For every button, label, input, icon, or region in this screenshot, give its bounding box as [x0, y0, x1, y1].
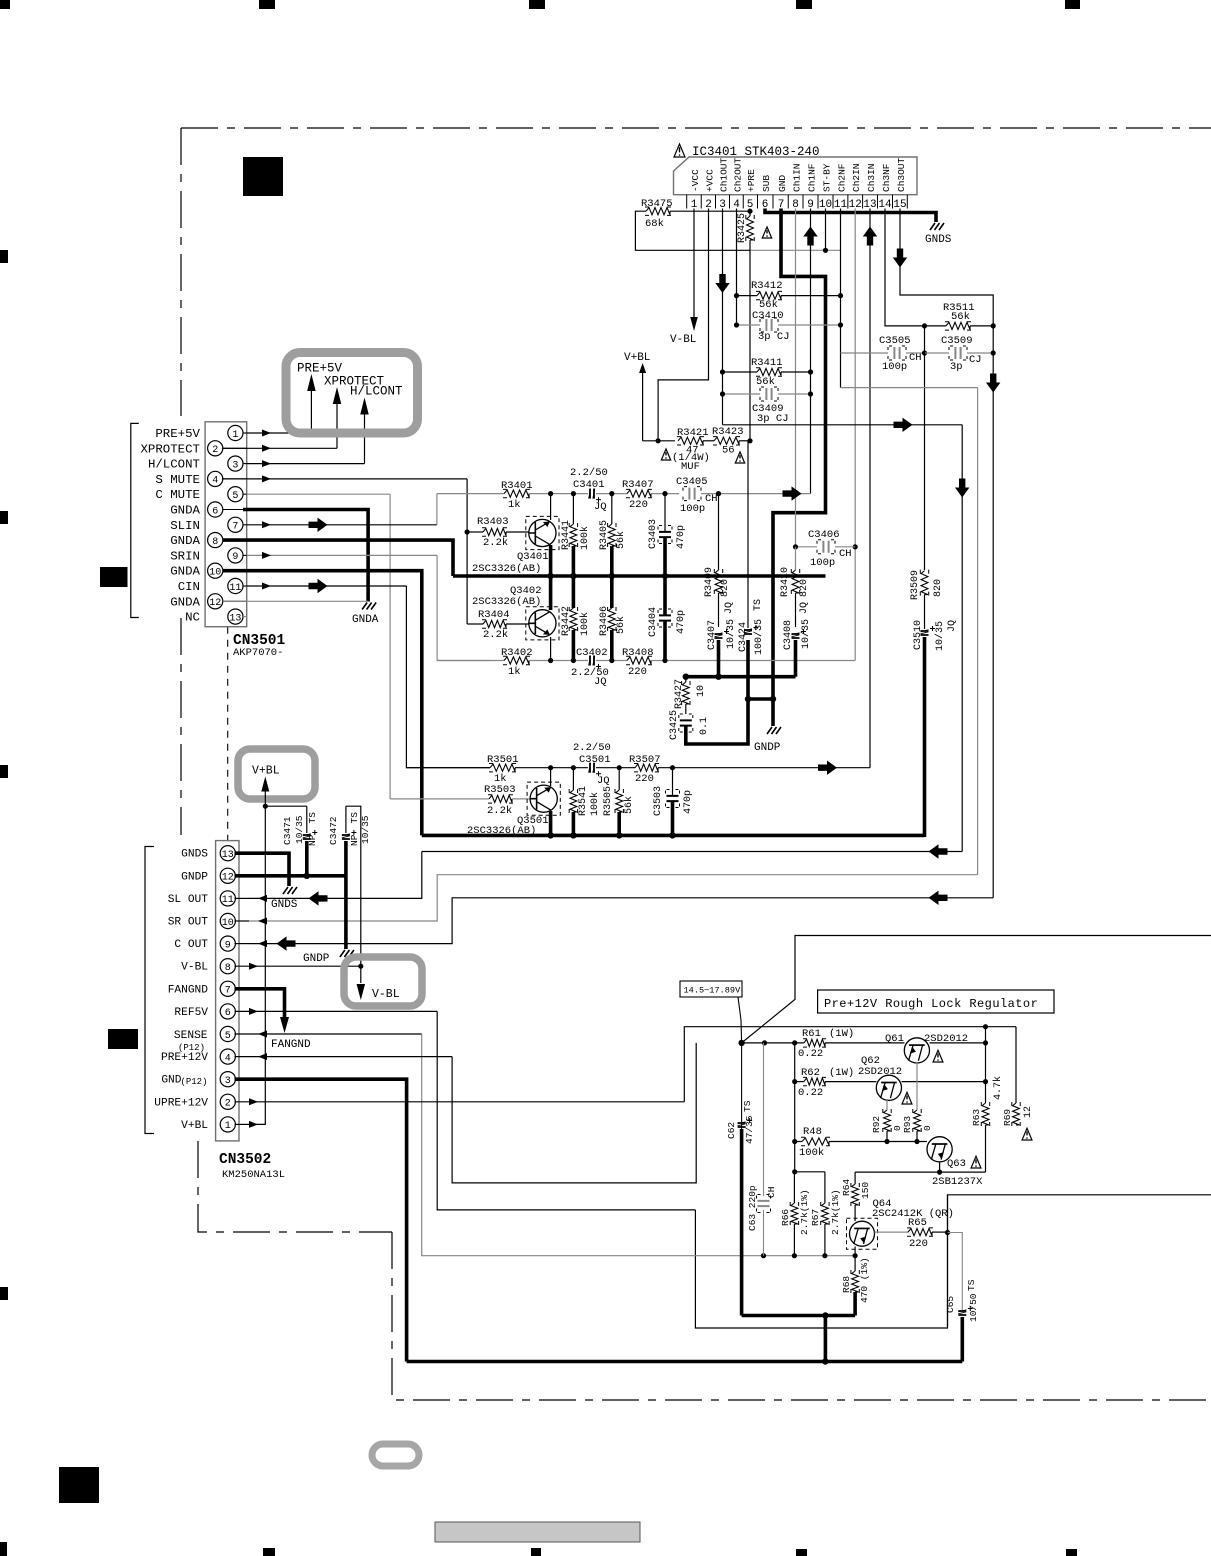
svg-text:C3424: C3424 [738, 622, 749, 652]
wire GND(P12) pin3 thick [235, 1079, 407, 1361]
svg-text:C OUT: C OUT [174, 939, 208, 951]
R69 wires [1015, 1027, 1017, 1103]
node 14.5V junction [738, 1040, 744, 1046]
wire R62 to Q62 [825, 1081, 876, 1083]
grey box PRE+5V/XPROTECT/H-LCONT [286, 353, 418, 434]
wire pin7 GND thick [773, 209, 826, 727]
svg-text:R67: R67 [810, 1209, 821, 1226]
wire Ch2IN column lower [854, 547, 856, 661]
wire CN3501 pin9 SRIN [247, 554, 437, 556]
svg-text:FANGND: FANGND [168, 984, 209, 996]
R3441 wires [572, 494, 574, 524]
C65 thick bottom [960, 1317, 964, 1362]
svg-text:JQ: JQ [594, 676, 607, 688]
svg-text:TS: TS [742, 1100, 753, 1112]
CN3502 pin 8 circle [220, 959, 235, 974]
svg-text:Pre+12V Rough Lock Regulator: Pre+12V Rough Lock Regulator [824, 997, 1038, 1011]
svg-text:C3410: C3410 [752, 310, 784, 322]
svg-text:220: 220 [635, 773, 654, 785]
wire R3402 line [437, 660, 504, 662]
C62 thick column [740, 1129, 744, 1316]
svg-text:GNDA: GNDA [170, 565, 200, 579]
CN3501 pin 5 circle [228, 487, 243, 502]
svg-text:2SB1237X: 2SB1237X [932, 1176, 983, 1188]
svg-text:R3423: R3423 [712, 426, 744, 438]
svg-text:JQ: JQ [597, 775, 610, 787]
registration mark top 5 [1065, 0, 1080, 9]
thick bias bus [686, 675, 796, 679]
main thick ground bus bottom [407, 1360, 963, 1364]
svg-text:10: 10 [209, 568, 221, 579]
svg-text:H/LCONT: H/LCONT [350, 385, 403, 399]
svg-text:R3403: R3403 [477, 516, 509, 528]
wire pin13 Ch3IN down [869, 209, 871, 768]
svg-text:14.5~17.89V: 14.5~17.89V [684, 986, 742, 996]
wire CN3501 pin8 GNDA to bus [223, 540, 453, 576]
svg-text:1k: 1k [508, 666, 521, 678]
ground GNDP main [767, 727, 781, 734]
dash-dot border bottom step [392, 1232, 1211, 1400]
wire pin14 Ch3NF down [885, 209, 925, 326]
svg-text:CJ: CJ [969, 354, 982, 366]
svg-text:R3405: R3405 [599, 520, 610, 550]
CN3501 pin 7 circle [228, 517, 243, 532]
svg-text:9: 9 [232, 552, 238, 563]
svg-text:Q3401: Q3401 [517, 551, 549, 563]
wire R3402 to C3402 [529, 660, 588, 662]
svg-text:R48: R48 [803, 1126, 822, 1138]
svg-text:R3507: R3507 [629, 754, 661, 766]
svg-text:150: 150 [860, 1182, 871, 1199]
R63 wires [985, 1027, 987, 1103]
wire SUB pin6 to GNDS [765, 209, 936, 223]
svg-text:KM250NA13L: KM250NA13L [222, 1169, 285, 1181]
svg-text:Ch3IN: Ch3IN [866, 163, 877, 192]
svg-text:0: 0 [922, 1125, 933, 1131]
svg-text:H/LCONT: H/LCONT [148, 458, 200, 472]
dash-dot border left upper [180, 128, 182, 416]
svg-text:220: 220 [909, 1238, 928, 1250]
dash-dot border left lower [180, 618, 182, 835]
svg-text:R3421: R3421 [677, 427, 709, 439]
R3442 wires [572, 576, 576, 608]
svg-text:V-BL: V-BL [181, 962, 208, 974]
arrow to Ch1NF [783, 486, 802, 500]
grey bar bottom [435, 1522, 640, 1542]
Q3402 collector riser thick [549, 576, 553, 610]
svg-text:100p: 100p [810, 557, 835, 569]
svg-text:0.1: 0.1 [699, 717, 710, 735]
svg-text:2.2/50: 2.2/50 [570, 467, 608, 479]
svg-text:100p: 100p [680, 503, 705, 515]
svg-text:NC: NC [185, 611, 200, 625]
arrow CIN big [309, 579, 328, 593]
svg-text:3: 3 [232, 460, 238, 471]
registration mark left 4 [0, 1287, 8, 1300]
svg-text:0.22: 0.22 [798, 1048, 823, 1060]
capacitor C3409 [766, 388, 771, 400]
svg-text:CIN: CIN [178, 580, 200, 594]
svg-text:R3509: R3509 [910, 570, 921, 600]
svg-text:XPROTECT: XPROTECT [141, 442, 201, 456]
wire S MUTE column [466, 479, 468, 624]
CN3502 pin 4 circle [220, 1049, 235, 1064]
transistor Q3501 2SC3326 [530, 785, 557, 812]
svg-text:R3401: R3401 [501, 480, 533, 492]
svg-text:2: 2 [212, 445, 218, 456]
svg-text:(P12): (P12) [180, 1077, 207, 1087]
wire R3408 right [651, 660, 855, 662]
svg-text:SR OUT: SR OUT [168, 917, 209, 929]
wire SRIN column [437, 555, 489, 660]
svg-text:10/35: 10/35 [800, 619, 812, 649]
svg-text:SUB: SUB [761, 175, 772, 192]
svg-text:2.7k(1%): 2.7k(1%) [799, 1189, 810, 1235]
wire Q61 collector to R63 column [930, 1042, 986, 1044]
wire GNDP pin12 [235, 874, 346, 878]
svg-text:GNDP: GNDP [181, 871, 208, 883]
C3408 thick lower to bus [794, 640, 798, 677]
CN3501 pin 12 circle [208, 594, 223, 609]
arrow C OUT left far [929, 891, 948, 905]
svg-text:2SC3326(AB): 2SC3326(AB) [472, 596, 541, 608]
wire SL drop column [961, 425, 963, 852]
Q63 collector to node [939, 1162, 941, 1172]
R93 wires - Q61 emitter [916, 1062, 918, 1110]
R3421 warning triangle [661, 449, 670, 460]
R64 wires [854, 1172, 856, 1184]
Q3501 base riser [550, 768, 552, 786]
svg-text:+PRE: +PRE [746, 169, 757, 192]
svg-text:JQ: JQ [799, 602, 810, 614]
svg-text:Ch3OUT: Ch3OUT [896, 157, 907, 192]
svg-text:Ch2IN: Ch2IN [851, 163, 862, 192]
svg-text:C3425: C3425 [669, 710, 680, 740]
svg-text:GNDP: GNDP [303, 953, 330, 965]
svg-text:R64: R64 [841, 1179, 852, 1196]
svg-text:2: 2 [225, 1099, 231, 1110]
CN3502 pin 6 circle [220, 1004, 235, 1019]
wire UPRE+12V pin2 [235, 1101, 685, 1103]
svg-text:R3441: R3441 [561, 520, 572, 550]
wire CN3501 pin2 XPROTECT [222, 447, 337, 449]
wire R3501 to C3501 [515, 767, 588, 769]
transistor Q3401 2SC3326 [529, 519, 556, 546]
connector CN3501 body [205, 422, 247, 627]
svg-text:GNDS: GNDS [271, 899, 298, 911]
wire CN3501 pin5 C MUTE [247, 493, 390, 495]
svg-text:470 (1%): 470 (1%) [859, 1257, 870, 1303]
wire ST-BY rail [750, 249, 841, 251]
svg-text:6: 6 [225, 1008, 231, 1019]
CN3502 pin 5 circle [220, 1026, 235, 1041]
box 14.5~17.89V [680, 981, 742, 997]
V+BL arrow up [261, 777, 269, 792]
V-BL arrow pin1 [690, 317, 698, 331]
resistor R67 2.7k(1%) [824, 1172, 826, 1203]
wire V+BL column to CN3502 pin1 [249, 806, 265, 1125]
svg-text:2.2k: 2.2k [483, 629, 508, 641]
R3427 wires [685, 677, 687, 682]
CN3502 pin 10 circle [220, 913, 235, 928]
svg-text:220: 220 [628, 666, 647, 678]
R92 wires - Q62 emitter [886, 1099, 888, 1110]
registration mark top-left [0, 0, 10, 9]
Q3402 base riser from below [550, 637, 552, 661]
transistor Q61 2SD2012 [904, 1038, 929, 1063]
wire GNDP down to ground [344, 876, 348, 949]
large black square bottom-left [59, 1467, 99, 1503]
svg-text:TS: TS [307, 812, 318, 824]
svg-text:C3403: C3403 [648, 519, 659, 549]
wire pin11 to SR drop [841, 387, 978, 389]
arrow SL feed right [894, 418, 913, 432]
wire C3509 [925, 352, 950, 354]
registration mark left 3 [0, 765, 8, 778]
wire R3423 to +PRE column [739, 440, 750, 442]
svg-text:GNDS: GNDS [925, 234, 952, 246]
registration mark bottom 4 [796, 1549, 807, 1556]
svg-text:PRE+5V: PRE+5V [297, 362, 343, 376]
Q63 warning triangle [971, 1156, 981, 1168]
wire CN3501 pin7 SLIN [247, 524, 437, 526]
arrow SL OUT left [929, 844, 948, 858]
R3409 wires [718, 494, 720, 570]
svg-text:ST-BY: ST-BY [821, 163, 832, 192]
C3407 thick lower [717, 640, 721, 677]
wire R3501 line [406, 767, 490, 769]
wire R3401 to C3401 [529, 493, 588, 495]
thick drop to main bus [824, 1316, 828, 1362]
svg-text:JQ: JQ [724, 602, 735, 614]
ground GNDS lower [283, 887, 297, 894]
svg-text:2SC3326(AB): 2SC3326(AB) [472, 563, 541, 575]
registration mark top 2 [259, 0, 275, 9]
wire SL OUT return [422, 851, 962, 853]
wire R48 line [795, 1141, 802, 1143]
svg-text:C MUTE: C MUTE [155, 488, 200, 502]
arrow pin3 down [715, 274, 729, 293]
wire R3507 right to Ch3IN [658, 767, 870, 769]
svg-text:R3410: R3410 [780, 567, 791, 597]
registration mark bottom 3 [531, 1548, 541, 1556]
svg-text:470p: 470p [676, 610, 687, 634]
svg-text:PRE+12V: PRE+12V [161, 1052, 208, 1064]
wire CN3501 pin3 H/LCONT [247, 463, 365, 465]
Q64 emitter to sense node [854, 1247, 856, 1256]
wire C OUT return [249, 898, 993, 944]
svg-text:56k: 56k [756, 376, 775, 388]
ground GNDP lower [340, 950, 354, 957]
CN3501 pin 6 circle [208, 502, 223, 517]
svg-text:+VCC: +VCC [704, 169, 715, 192]
svg-text:C3407: C3407 [707, 620, 718, 650]
wire R61 to Q61 [825, 1042, 905, 1044]
svg-text:JQ: JQ [594, 501, 607, 513]
arrow pin15 down [893, 249, 907, 268]
svg-text:R65: R65 [908, 1217, 927, 1229]
wire R65 to output column [932, 1231, 948, 1233]
svg-text:1: 1 [232, 430, 238, 441]
C3424 top wire [747, 441, 749, 628]
svg-text:GND: GND [777, 175, 788, 192]
wire CN3501 pin1 PRE+5V [247, 432, 312, 434]
ground GNDA [362, 603, 376, 610]
svg-text:SRIN: SRIN [170, 549, 200, 563]
svg-text:Ch1OUT: Ch1OUT [718, 157, 729, 192]
svg-text:C65: C65 [945, 1296, 956, 1313]
svg-text:R68: R68 [841, 1276, 852, 1293]
svg-text:CN3502: CN3502 [219, 1152, 271, 1168]
wire SENSE pin5 [235, 1033, 422, 1035]
wire pin4 Ch2OUT down [736, 209, 738, 326]
svg-text:13: 13 [229, 613, 241, 624]
large black square top [243, 157, 283, 196]
wire SR OUT pin10 stub [235, 920, 250, 922]
wire pin3 Ch1OUT down [722, 209, 724, 425]
registration mark left 2 [0, 511, 8, 524]
C3425 thick bottom [686, 640, 748, 744]
Q62 warning triangle [902, 1092, 912, 1104]
transistor Q63 2SB1237X [927, 1137, 952, 1162]
svg-text:3: 3 [225, 1076, 231, 1087]
svg-text:10: 10 [696, 685, 707, 697]
svg-text:CH: CH [705, 493, 718, 505]
wire SENSE route [422, 1034, 855, 1256]
CN3501 pin 11 circle [228, 578, 243, 593]
svg-text:UPRE+12V: UPRE+12V [154, 1097, 208, 1109]
svg-text:220: 220 [629, 499, 648, 511]
svg-text:7: 7 [225, 986, 231, 997]
wire FANGND pin7 [235, 989, 285, 1022]
C3403 wires [664, 494, 666, 532]
arrow pin13 up [863, 227, 877, 246]
svg-text:1k: 1k [508, 499, 521, 511]
svg-text:13: 13 [222, 850, 234, 861]
black patch mark left-lower [108, 1029, 138, 1049]
wire R65 node to C65 [948, 1233, 963, 1311]
svg-text:C3404: C3404 [648, 607, 659, 637]
svg-text:3p CJ: 3p CJ [758, 331, 790, 343]
CN3502 pin 1 circle [220, 1117, 235, 1132]
Q61 warning triangle [933, 1050, 943, 1062]
svg-text:2.2k: 2.2k [487, 805, 512, 817]
svg-text:3p: 3p [950, 361, 963, 373]
wire CN3501 pin6 GNDA to ground [243, 510, 368, 602]
Q3501 emitter riser thick [549, 811, 553, 835]
wire C3409 [723, 393, 761, 395]
wire C3505 [841, 352, 889, 354]
arrow C-OUT column down [986, 374, 1000, 393]
svg-text:Q63: Q63 [947, 1158, 966, 1170]
svg-text:12: 12 [222, 873, 234, 884]
connector CN3502 body [216, 841, 239, 1141]
transistor Q3402 2SC3326 [529, 610, 556, 637]
wire SL OUT drop to CN3502 [249, 852, 422, 899]
wire R3401 line [437, 493, 504, 495]
svg-text:GNDA: GNDA [170, 504, 200, 518]
svg-text:SENSE: SENSE [174, 1030, 208, 1042]
wire GNDS pin13 [235, 853, 290, 886]
svg-text:R3408: R3408 [622, 647, 654, 659]
arrow pin9 up [803, 227, 817, 246]
svg-text:56k: 56k [623, 796, 635, 814]
CN3501 pin 3 circle [228, 456, 243, 471]
pointer from voltage box [738, 997, 742, 1043]
wire PRE+12V route [452, 1043, 696, 1183]
wire GNDP tap [748, 697, 773, 701]
svg-text:7: 7 [232, 522, 238, 533]
op-amp U1 IC3401 STK403-240 body [674, 157, 918, 195]
grey box V-BL [344, 957, 422, 1006]
svg-text:1: 1 [225, 1121, 231, 1132]
svg-text:11: 11 [222, 895, 234, 906]
svg-text:R3505: R3505 [603, 786, 614, 816]
svg-text:Q61: Q61 [885, 1033, 904, 1045]
svg-text:8: 8 [212, 537, 218, 548]
R3423 warning triangle [735, 452, 744, 463]
wire Ch3 feedback column down to R3509 [924, 326, 926, 570]
grey box V+BL [238, 749, 315, 799]
CN3502 pin 7 circle [220, 981, 235, 996]
wire R3404 [467, 623, 483, 625]
black patch mark left-middle [100, 567, 128, 587]
wire CN3501 pin12 GNDA stub [223, 600, 368, 602]
svg-text:Ch2OUT: Ch2OUT [732, 157, 743, 192]
wire R64 node line [855, 1171, 985, 1173]
CN3501 bracket [131, 423, 139, 617]
svg-text:TS: TS [966, 1279, 977, 1291]
R68 wires [854, 1256, 856, 1271]
svg-text:820: 820 [933, 579, 944, 597]
resistor R3423 [714, 437, 739, 444]
svg-text:C3405: C3405 [676, 476, 708, 488]
wire REF5V pin6 [235, 1010, 438, 1012]
wire SLIN jog up [436, 494, 438, 525]
resistor R3541 [570, 790, 577, 812]
wire R3403 [467, 531, 483, 533]
wire pin2 +VCC to V+BL node [658, 209, 708, 441]
svg-text:IC3401 STK403-240: IC3401 STK403-240 [692, 145, 820, 159]
svg-text:R3402: R3402 [501, 647, 533, 659]
svg-text:56: 56 [722, 445, 735, 457]
svg-text:9: 9 [225, 940, 231, 951]
arrow SL OUT big near connector [309, 891, 328, 905]
wire R66/R67 top node [795, 1171, 825, 1173]
CN3501 pin 9 circle [228, 548, 243, 563]
CN3501 pin 4 circle [208, 471, 223, 486]
svg-text:100k: 100k [589, 792, 601, 816]
wire R3421-R3423 [703, 440, 714, 442]
wire Q62 collector to R63 column [902, 1081, 986, 1083]
V+BL arrow [639, 363, 646, 373]
svg-text:100p: 100p [882, 361, 907, 373]
CN3501 pin 13 circle [228, 609, 243, 624]
wire R3412 [737, 295, 758, 297]
svg-text:Ch2NF: Ch2NF [836, 163, 847, 192]
svg-text:GNDP: GNDP [754, 742, 781, 754]
wire V-BL pin8 [235, 965, 361, 967]
svg-text:V+BL: V+BL [624, 352, 650, 364]
CN3502 pin 9 circle [220, 936, 235, 951]
C3510 wires [924, 595, 926, 629]
svg-text:100k: 100k [579, 526, 591, 550]
svg-text:C62: C62 [726, 1122, 737, 1139]
svg-text:Ch1IN: Ch1IN [791, 163, 802, 192]
svg-text:3p CJ: 3p CJ [757, 413, 789, 425]
svg-text:CH: CH [766, 1187, 777, 1198]
ground GNDS [930, 223, 944, 230]
